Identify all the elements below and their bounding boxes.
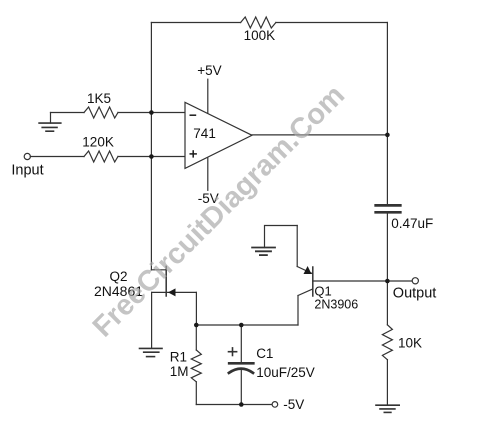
wire 1K5 left (51, 112, 85, 114)
wire Q1 emitter up (296, 226, 298, 267)
resistor R 120K (84, 151, 118, 162)
node R1 top (194, 323, 199, 328)
svg-text:R1: R1 (170, 350, 187, 365)
wire 1K5 to op-amp minus (118, 112, 185, 114)
capacitor C1 curved plate (229, 369, 253, 373)
resistor R 100K (241, 17, 276, 28)
svg-text:C1: C1 (256, 346, 273, 361)
svg-text:-5V: -5V (283, 397, 304, 412)
op-amp plus sign (190, 150, 197, 157)
transistor Q1 bar (312, 267, 314, 296)
svg-text:2N3906: 2N3906 (314, 298, 358, 312)
node C1 top (239, 323, 244, 328)
capacitor C1 lead top (240, 325, 242, 362)
transistor Q1 emitter arrow (304, 266, 312, 274)
node minus input (149, 110, 154, 115)
svg-text:120K: 120K (82, 135, 114, 150)
terminal -5V (272, 402, 278, 408)
ground G3 (Q1 emitter) (252, 248, 275, 256)
resistor R1 1M zigzag (191, 350, 201, 382)
op-amp minus sign (190, 114, 197, 116)
wire input left (30, 156, 84, 158)
resistor R 10K zigzag (382, 325, 392, 360)
wire top feedback right segment (276, 22, 388, 24)
svg-text:Q1: Q1 (314, 284, 331, 299)
resistor R1 1M leads (195, 325, 197, 350)
transistor Q1 base wire to output node (313, 280, 388, 282)
node op-amp output (385, 133, 390, 138)
transistor Q2 2N4861 drain elbow (151, 269, 166, 271)
transistor Q2 gate arrow (168, 288, 176, 296)
svg-text:741: 741 (193, 126, 216, 141)
transistor Q1 emitter diagonal (297, 267, 313, 274)
wire -5V stub (207, 158, 209, 190)
ground G2 (Q2 source) (140, 348, 163, 356)
wire Q2 gate down to node (195, 292, 197, 325)
wire +5V stub (207, 79, 209, 113)
transistor Q2 channel bar (165, 266, 167, 296)
terminal Input (24, 153, 30, 159)
node output (385, 279, 390, 284)
wire bottom mid horizontal (196, 324, 298, 326)
transistor Q2 source and gate line (152, 291, 197, 293)
transistor Q1 collector diagonal (298, 289, 313, 296)
node dots (149, 110, 390, 407)
svg-text:10K: 10K (398, 336, 422, 351)
svg-text:1K5: 1K5 (87, 91, 111, 106)
svg-text:100K: 100K (244, 28, 276, 43)
op-amp U1 741 triangle (185, 102, 252, 168)
terminal Output (387, 280, 412, 282)
wire hook to ground (265, 226, 298, 248)
capacitor C1 lead bottom (240, 370, 242, 405)
capacitor C1 top plate (229, 362, 253, 365)
C1 plus sign (229, 348, 237, 356)
wire right vertical below cap (386, 214, 388, 325)
wire 120K to op-amp plus (118, 156, 185, 158)
wire left feedback vertical (150, 23, 152, 270)
node plus input (149, 154, 154, 159)
ground G1 (1K5) (39, 113, 61, 132)
wire top feedback left segment (151, 22, 240, 24)
wire Q1 collector vertical (297, 296, 299, 326)
capacitor C2 0.47uF plates (376, 204, 401, 207)
node C1 bottom (239, 402, 244, 407)
svg-text:10uF/25V: 10uF/25V (256, 365, 315, 380)
svg-text:+5V: +5V (197, 63, 221, 78)
svg-text:Output: Output (393, 285, 437, 301)
ground G4 (10K) (376, 405, 399, 412)
wire Q2 source down (151, 292, 153, 348)
wire right vertical to capacitor (386, 23, 388, 205)
svg-text:Input: Input (11, 163, 43, 179)
svg-text:1M: 1M (170, 364, 189, 379)
wire bottom to -5V (196, 404, 272, 406)
svg-text:0.47uF: 0.47uF (391, 216, 433, 231)
wire op-amp output (252, 134, 387, 136)
wire 10K to ground (386, 360, 388, 406)
resistor R 1K5 (84, 107, 118, 118)
